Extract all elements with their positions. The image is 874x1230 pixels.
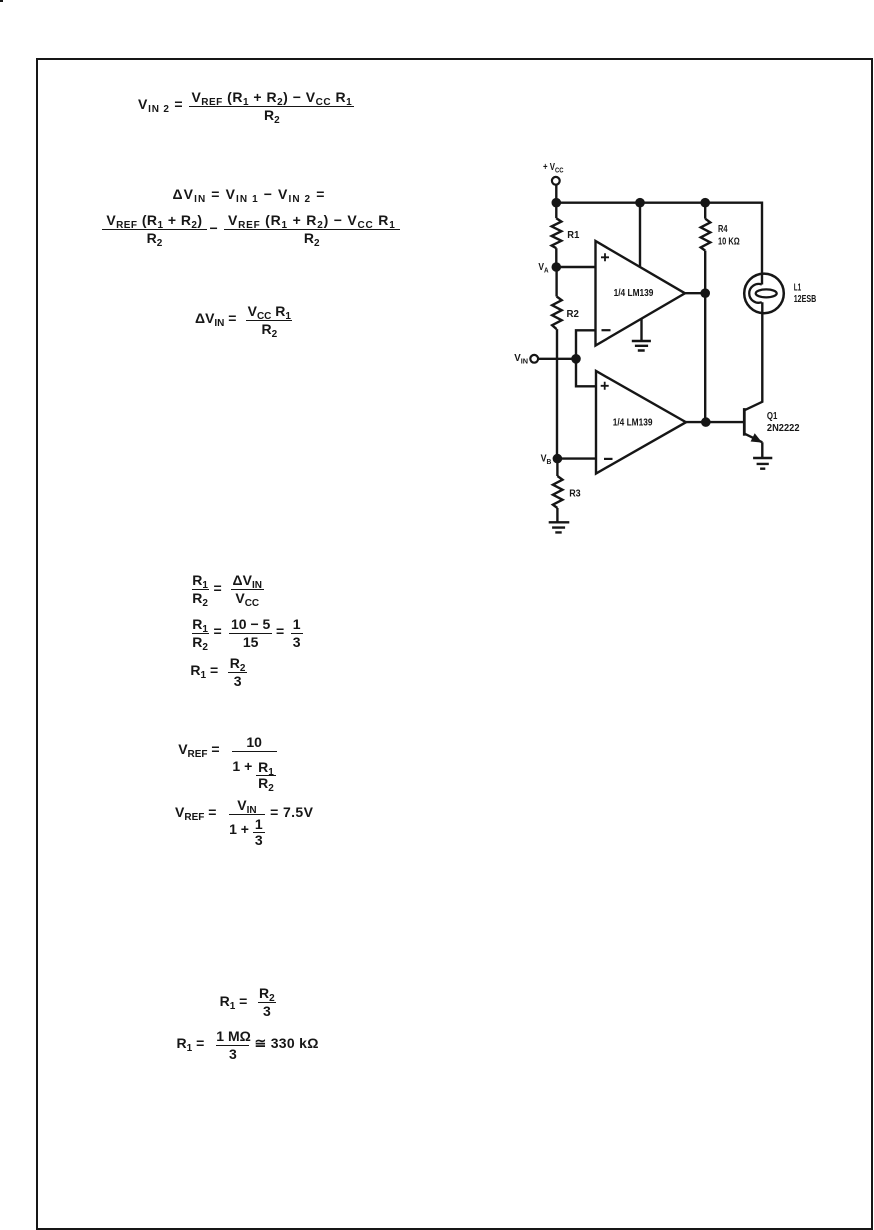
- Q1 emitter lead: [761, 442, 763, 457]
- node VIN junction: [571, 354, 581, 364]
- wire op1 output: [685, 292, 705, 294]
- svg-text:1/4 LM139: 1/4 LM139: [614, 288, 654, 299]
- svg-text:VB: VB: [541, 454, 552, 466]
- op1 plus sign: [601, 253, 609, 261]
- wire Vcc stem: [555, 185, 557, 203]
- resistor R1: [555, 203, 557, 219]
- wire VB to op2 minus: [557, 457, 596, 459]
- VIN terminal: [530, 355, 538, 363]
- resistor R2: [555, 267, 557, 297]
- ground op1: [632, 341, 651, 351]
- svg-text:Q1: Q1: [767, 411, 778, 422]
- op2 plus sign: [601, 382, 609, 390]
- equation 3: [195, 310, 236, 327]
- svg-text:+ VCC: + VCC: [543, 162, 564, 174]
- wire op2 output: [686, 421, 744, 423]
- lamp filament ellipse: [756, 289, 777, 297]
- op-amp U2 1/4 LM139: [596, 371, 686, 474]
- resistor R4: [704, 203, 706, 219]
- svg-text:R2: R2: [567, 309, 580, 320]
- node op2 out: [701, 417, 711, 427]
- wire divider R2 to VB: [556, 329, 558, 459]
- op1 ground pin: [640, 318, 642, 340]
- equation 1: VIN2: [138, 96, 183, 113]
- node op1 out: [700, 288, 710, 298]
- svg-text:1/4 LM139: 1/4 LM139: [613, 418, 653, 429]
- wire VIN: [538, 358, 576, 360]
- ground Q1: [753, 458, 772, 469]
- lamp filament arc: [749, 284, 762, 303]
- Q1 emitter: [744, 434, 762, 443]
- circuit schematic: [480, 140, 840, 560]
- wire jog to op1 minus: [576, 330, 596, 359]
- equation 8: [175, 804, 216, 821]
- wire jog to op2 plus: [576, 359, 596, 387]
- lamp L1 circle: [744, 274, 784, 314]
- svg-text:VIN: VIN: [514, 353, 528, 365]
- corner blob: [0, 0, 3, 2]
- equation 2 line 1: [173, 186, 326, 203]
- +Vcc terminal: [552, 177, 560, 185]
- node rail-mid: [635, 198, 645, 208]
- svg-text:R1: R1: [567, 230, 579, 241]
- equation 5: [192, 616, 209, 651]
- op-amp U1 1/4 LM139: [596, 241, 686, 346]
- svg-text:12ESB: 12ESB: [794, 294, 817, 305]
- wire top rail: [556, 203, 762, 285]
- transistor Q1 base bar: [743, 408, 746, 436]
- Q1 collector: [744, 302, 762, 410]
- svg-text:R3: R3: [569, 489, 581, 500]
- equation 7: [178, 741, 219, 758]
- op1 power pin: [639, 203, 641, 267]
- svg-text:VA: VA: [538, 262, 549, 274]
- wire R4 down: [704, 251, 706, 423]
- ground R3: [549, 522, 570, 532]
- svg-text:L1: L1: [794, 283, 802, 294]
- resistor R3: [556, 459, 558, 476]
- node VB: [553, 454, 563, 464]
- Q1 emitter arrow: [751, 433, 763, 442]
- node rail-R4: [700, 198, 710, 208]
- node VA: [552, 262, 562, 272]
- op2 minus sign: [604, 458, 613, 460]
- svg-text:R4: R4: [718, 224, 728, 235]
- node rail-left: [552, 198, 562, 208]
- wire VA to op1 +: [556, 266, 595, 268]
- equation 6: [190, 662, 218, 679]
- svg-text:2N2222: 2N2222: [767, 423, 800, 434]
- equation 4: [192, 572, 209, 607]
- svg-text:10 KΩ: 10 KΩ: [718, 236, 740, 247]
- equation 2 line 2: [102, 212, 207, 247]
- wire R3 to ground: [556, 508, 558, 522]
- equation 9: [220, 993, 248, 1010]
- op1 minus sign: [602, 329, 611, 331]
- equation 10: [177, 1035, 205, 1052]
